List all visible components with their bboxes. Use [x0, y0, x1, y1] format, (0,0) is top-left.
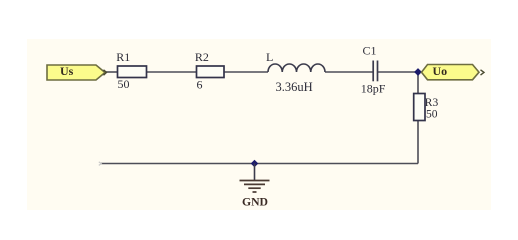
svg-text:GND: GND [242, 195, 268, 208]
svg-text:50: 50 [426, 108, 438, 120]
svg-text:R3: R3 [425, 97, 439, 109]
svg-text:Uo: Uo [433, 64, 448, 78]
svg-text:50: 50 [118, 77, 130, 91]
svg-text:R2: R2 [195, 50, 209, 64]
svg-text:6: 6 [197, 78, 203, 92]
svg-text:L: L [266, 50, 273, 64]
svg-text:R1: R1 [116, 50, 130, 64]
svg-text:18pF: 18pF [361, 81, 386, 95]
svg-text:Us: Us [60, 64, 74, 78]
svg-text:C1: C1 [363, 44, 377, 58]
svg-text:3.36uH: 3.36uH [276, 80, 313, 94]
